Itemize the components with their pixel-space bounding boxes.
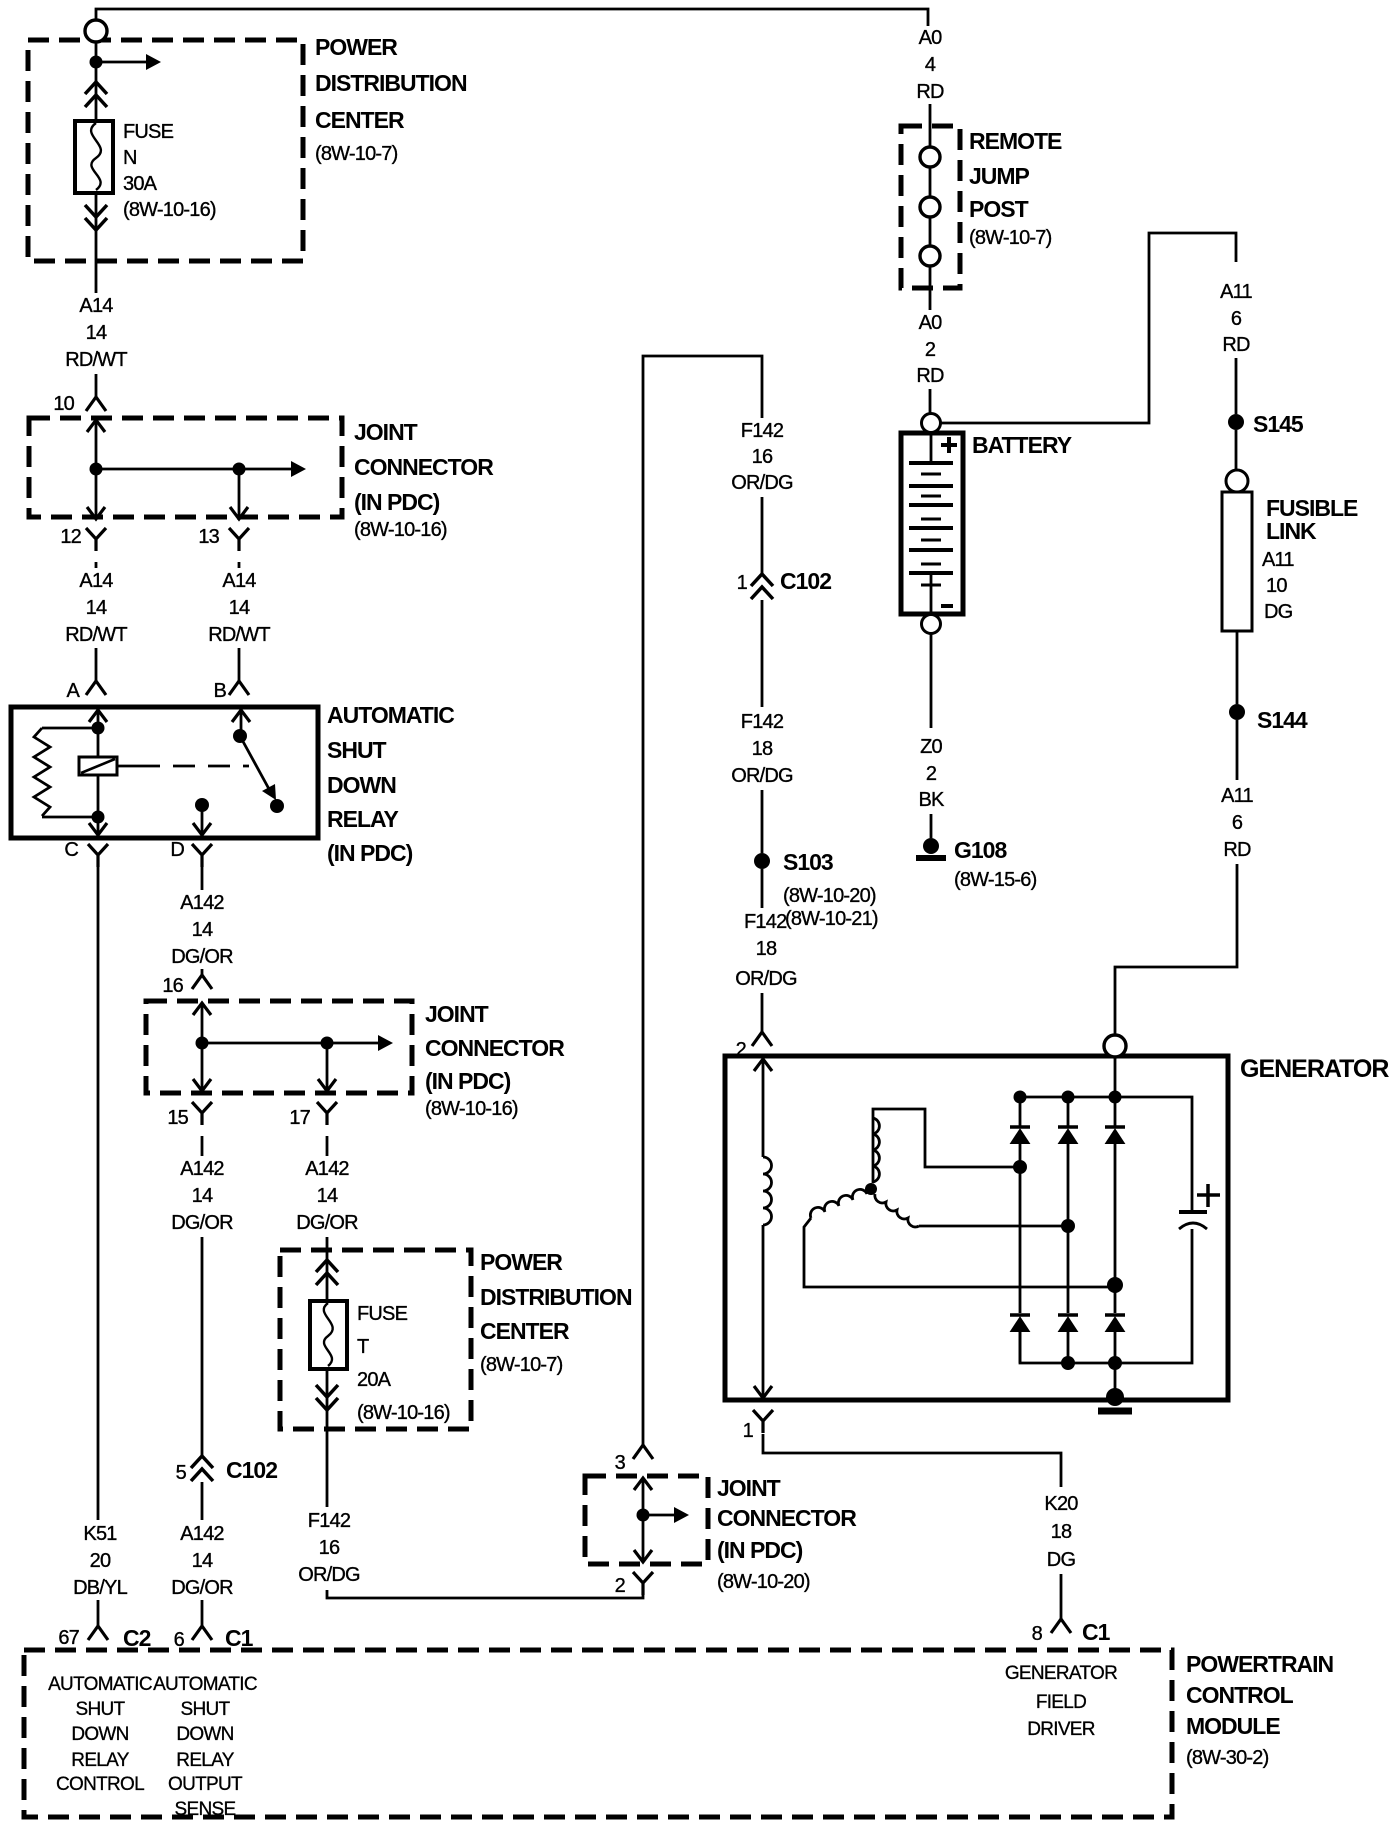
relay coil box: [79, 757, 117, 775]
stator tap dot 3: [1107, 1277, 1123, 1293]
label: wire K51 20 DB/YL: [62, 1520, 138, 1599]
wire: F142 16 OR/DG through C102 pin 1: [761, 497, 764, 707]
battery minus sign: [941, 604, 953, 608]
label: fuse N: [123, 121, 216, 221]
label: ground G108: [954, 837, 1037, 891]
pin C exit arrow: [89, 823, 107, 835]
generator rectifier top bus: [1020, 1097, 1192, 1212]
svg-text:20: 20: [90, 1550, 111, 1572]
connector C102 pin 1 chevrons: [751, 574, 773, 599]
remote jump post terminal 3: [920, 246, 940, 266]
svg-text:OR/DG: OR/DG: [735, 968, 797, 990]
generator capacitor plates: [1179, 1210, 1207, 1214]
pin 2 generator connector half: [752, 1032, 772, 1046]
wire: generator output circle into rectifier: [1114, 1057, 1117, 1097]
wire: A0 2 RD battery feed: [929, 389, 932, 413]
svg-text:12: 12: [60, 526, 81, 548]
fuse T body: [310, 1301, 347, 1369]
svg-text:F142: F142: [741, 711, 784, 733]
svg-text:(8W-10-7): (8W-10-7): [480, 1354, 563, 1376]
svg-text:BATTERY: BATTERY: [972, 432, 1072, 458]
label: fuse T: [357, 1303, 450, 1424]
svg-text:JOINT: JOINT: [717, 1475, 781, 1501]
heading: remote jump post: [969, 128, 1062, 249]
junction dot JC2 left: [196, 1037, 209, 1050]
svg-text:DG/OR: DG/OR: [171, 1577, 233, 1599]
svg-text:8: 8: [1032, 1623, 1043, 1645]
svg-text:S144: S144: [1257, 707, 1308, 733]
label: wire A142 14 DG/OR (pin 6): [166, 1520, 238, 1599]
pin 67 connector C2: [58, 1625, 150, 1651]
svg-text:(8W-10-7): (8W-10-7): [315, 143, 398, 165]
svg-text:SENSE: SENSE: [175, 1799, 236, 1820]
heading: powertrain control module: [1186, 1651, 1334, 1769]
heading: joint connector 2: [425, 1001, 565, 1120]
pin 16 connector half: [192, 975, 212, 989]
svg-text:16: 16: [319, 1537, 340, 1559]
svg-text:(8W-10-7): (8W-10-7): [969, 227, 1052, 249]
svg-text:15: 15: [167, 1107, 188, 1129]
relay contact D dot: [195, 798, 209, 812]
wire: relay pin B to switch pivot: [240, 710, 243, 730]
svg-text:K51: K51: [83, 1523, 117, 1545]
pin 16 mating arrow: [193, 1003, 211, 1015]
battery plus sign: [941, 437, 957, 453]
diode D4 bottom: [1010, 1315, 1030, 1332]
svg-text:A0: A0: [919, 27, 943, 49]
stator tap dot 1: [1013, 1160, 1027, 1174]
svg-text:JOINT: JOINT: [354, 419, 418, 445]
pin 10 mating arrow: [87, 420, 105, 432]
svg-text:A142: A142: [180, 1523, 224, 1545]
svg-text:FUSE: FUSE: [123, 121, 174, 143]
svg-text:(8W-10-16): (8W-10-16): [425, 1098, 518, 1120]
PCM function: automatic shut down relay control: [48, 1674, 152, 1795]
wire: generator field winding leg: [762, 1059, 765, 1398]
pin 12 exit arrow: [87, 507, 105, 519]
label: wire A14 14 RD/WT right: [203, 568, 275, 646]
svg-text:A0: A0: [919, 312, 943, 334]
generator stator winding 2: [810, 1189, 867, 1218]
svg-text:14: 14: [192, 1185, 213, 1207]
label: wire A0 2 RD: [900, 312, 960, 387]
svg-text:A11: A11: [1262, 549, 1294, 571]
connector chevrons: fuse N bottom: [85, 205, 107, 230]
connector chevrons: fuse N top: [85, 82, 107, 107]
remote jump post terminal 2: [920, 197, 940, 217]
svg-text:14: 14: [86, 597, 107, 619]
relay coil dashed link: [117, 765, 138, 768]
PDC internal feed arrow: [96, 61, 146, 64]
connector C102 pin 1: [737, 568, 832, 594]
wire: relay pin C to K51 label: [97, 866, 100, 1523]
svg-text:POST: POST: [969, 196, 1029, 222]
svg-text:30A: 30A: [123, 173, 158, 195]
svg-text:CENTER: CENTER: [315, 107, 405, 133]
splice S144 dot: [1229, 704, 1245, 720]
svg-text:A: A: [66, 680, 80, 702]
svg-text:C1: C1: [1082, 1619, 1111, 1645]
svg-text:MODULE: MODULE: [1186, 1713, 1280, 1739]
wire: pin 15 to A142 label: [201, 1136, 204, 1159]
svg-text:F142: F142: [308, 1510, 351, 1532]
rectifier top bus dot 2: [1062, 1091, 1075, 1104]
junction dot in PDC: [90, 56, 103, 69]
svg-text:AUTOMATIC: AUTOMATIC: [327, 702, 454, 728]
svg-text:C102: C102: [226, 1457, 277, 1483]
label: splice S103: [783, 849, 876, 907]
label: wire K20 18 DG: [1030, 1490, 1092, 1571]
svg-text:(IN PDC): (IN PDC): [717, 1537, 803, 1563]
svg-text:FIELD: FIELD: [1036, 1692, 1086, 1713]
svg-text:OR/DG: OR/DG: [731, 472, 793, 494]
rectifier bottom bus dot 3: [1108, 1356, 1122, 1370]
svg-text:S103: S103: [783, 849, 833, 875]
diode D2 top: [1058, 1127, 1078, 1144]
wire: A142 down to C102 pin 5: [201, 1237, 204, 1523]
wire: fusible link to S144: [1236, 631, 1239, 704]
wire: joint connector internal leg 12: [95, 420, 98, 519]
wire: joint connector 3 internal leg: [642, 1478, 645, 1562]
pin 2 JC3 exit arrow: [634, 1550, 652, 1562]
svg-text:(8W-10-20): (8W-10-20): [717, 1571, 810, 1593]
svg-text:18: 18: [1051, 1521, 1072, 1543]
wire: generator pin 1 to K20: [763, 1434, 1061, 1487]
pin 13 connector half: [229, 528, 249, 551]
generator rectifier diode column 1: [1019, 1097, 1022, 1363]
label: wire A11 6 RD upper: [1206, 280, 1266, 356]
svg-text:AUTOMATIC: AUTOMATIC: [153, 1674, 257, 1695]
svg-text:(IN PDC): (IN PDC): [327, 840, 413, 866]
svg-text:C102: C102: [780, 568, 831, 594]
label: wire A142 14 DG/OR (pin D): [166, 890, 238, 968]
svg-text:RELAY: RELAY: [71, 1750, 129, 1771]
joint connector box 3: [585, 1476, 708, 1564]
junction dot JC1 left: [90, 463, 103, 476]
svg-text:A142: A142: [180, 892, 224, 914]
generator stator winding 1: [873, 1109, 1020, 1183]
svg-text:DG: DG: [1264, 601, 1293, 623]
svg-text:T: T: [357, 1336, 369, 1358]
pin D exit arrow: [193, 823, 211, 835]
svg-text:A14: A14: [222, 570, 256, 592]
remote jump post box: [901, 126, 960, 288]
svg-text:14: 14: [317, 1185, 338, 1207]
svg-text:LINK: LINK: [1266, 518, 1317, 544]
pin 67 connector half: [88, 1626, 108, 1640]
svg-text:2: 2: [736, 1039, 747, 1061]
svg-text:GENERATOR: GENERATOR: [1240, 1055, 1389, 1083]
relay moving contact dot: [270, 799, 284, 813]
svg-text:DOWN: DOWN: [176, 1724, 233, 1745]
relay switch arm with arrowhead: [240, 736, 269, 789]
svg-text:16: 16: [162, 975, 183, 997]
wire: A11 6 RD into generator output circle: [1115, 864, 1237, 1034]
diode D6 bottom: [1105, 1315, 1125, 1332]
splice S145 dot: [1228, 414, 1244, 430]
svg-text:JUMP: JUMP: [969, 163, 1030, 189]
diode D5 bottom: [1058, 1315, 1078, 1332]
wire: A14 14 RD/WT to joint connector pin 10: [95, 374, 98, 397]
pin 3 mating arrow: [634, 1478, 652, 1490]
connector C102 pin 5: [176, 1457, 278, 1484]
svg-text:A142: A142: [180, 1158, 224, 1180]
generator field coil: [763, 1157, 772, 1225]
rectifier bottom bus dot 2: [1061, 1356, 1075, 1370]
generator rectifier bottom bus: [1020, 1229, 1192, 1363]
battery cell plates: [909, 463, 953, 573]
battery positive terminal circle: [922, 414, 941, 433]
svg-text:REMOTE: REMOTE: [969, 128, 1062, 154]
wire: battery negative Z0 to G108: [930, 634, 933, 838]
generator rectifier diode column 2: [1067, 1097, 1070, 1363]
wire: F142 net riser to joint connector pin 3: [643, 356, 762, 1445]
svg-text:CONTROL: CONTROL: [1186, 1682, 1294, 1708]
svg-text:17: 17: [289, 1107, 310, 1129]
svg-text:SHUT: SHUT: [327, 737, 387, 763]
relay coil bottom junction dot: [92, 811, 105, 824]
svg-text:(IN PDC): (IN PDC): [425, 1068, 511, 1094]
pin 15 connector half: [192, 1102, 212, 1125]
svg-text:18: 18: [752, 738, 773, 760]
wire: A0 riser through remote jump post to battery: [929, 104, 932, 310]
node: PDC B+ terminal circle: [85, 20, 107, 42]
wire: A142 to PCM pin 6: [201, 1600, 204, 1626]
svg-text:N: N: [123, 147, 137, 169]
label: wire A142 14 DG/OR (pin 15): [166, 1156, 238, 1234]
svg-text:A11: A11: [1221, 785, 1253, 807]
connector chevrons: fuse T top: [316, 1260, 338, 1285]
pin 8 connector C1: [1032, 1619, 1111, 1645]
pin 8 connector half: [1051, 1619, 1071, 1633]
svg-text:RD: RD: [1222, 334, 1250, 356]
joint connector 3 bus arrow: [643, 1514, 674, 1517]
power distribution center box (top): [28, 40, 303, 261]
heading: power distribution center: [315, 34, 467, 165]
svg-text:FUSE: FUSE: [357, 1303, 408, 1325]
svg-text:G108: G108: [954, 837, 1007, 863]
generator output terminal circle: [1104, 1035, 1126, 1057]
label: wire F142 16 OR/DG upper: [726, 418, 798, 494]
label: wire F142 18 OR/DG: [726, 709, 798, 787]
pin 3 connector half: [633, 1445, 653, 1459]
joint connector box 1: [29, 418, 342, 517]
pin A mating arrow: [89, 710, 107, 722]
connector C102 pin 5 chevrons: [191, 1456, 213, 1481]
relay switch pivot dot: [233, 729, 247, 743]
pin 10 connector half: [86, 397, 106, 411]
automatic shut down relay box: [11, 707, 318, 838]
fuse N body: [75, 121, 113, 193]
generator capacitor plus sign: [1197, 1184, 1220, 1207]
pin 1 generator connector half: [753, 1410, 773, 1433]
label: wire A0 4 RD: [900, 26, 960, 103]
svg-text:DB/YL: DB/YL: [73, 1577, 127, 1599]
svg-text:14: 14: [192, 1550, 213, 1572]
fuse N element: [91, 123, 101, 190]
PCM function: automatic shut down relay output sense: [153, 1674, 257, 1820]
wire: relay pin D to A142 label: [201, 866, 204, 893]
pin B mating arrow: [232, 710, 250, 722]
svg-text:AUTOMATIC: AUTOMATIC: [48, 1674, 152, 1695]
svg-text:DISTRIBUTION: DISTRIBUTION: [315, 70, 467, 96]
junction dot JC2 right: [321, 1037, 334, 1050]
svg-text:A11: A11: [1220, 281, 1252, 303]
wire: battery positive to A11 riser: [941, 233, 1236, 423]
pin 17 connector half: [317, 1102, 337, 1125]
junction dot JC1 right: [233, 463, 246, 476]
svg-text:RELAY: RELAY: [176, 1750, 234, 1771]
svg-text:14: 14: [229, 597, 250, 619]
svg-text:2: 2: [615, 1575, 626, 1597]
svg-text:A14: A14: [79, 570, 113, 592]
svg-text:K20: K20: [1044, 1493, 1078, 1515]
wire: relay pin A coil leg: [97, 710, 100, 835]
svg-text:CONTROL: CONTROL: [56, 1774, 144, 1795]
wire: rectifier ground leg: [1114, 1363, 1117, 1394]
svg-text:JOINT: JOINT: [425, 1001, 489, 1027]
rectifier top bus dot 3: [1109, 1091, 1122, 1104]
heading: power distribution center 2: [480, 1249, 632, 1376]
label: wire A14 14 RD/WT left: [60, 568, 132, 646]
ground G108 symbol: [923, 838, 939, 854]
rectifier top bus dot 1: [1014, 1091, 1027, 1104]
svg-text:2: 2: [925, 339, 936, 361]
diode D3 top: [1105, 1127, 1125, 1144]
svg-text:RELAY: RELAY: [327, 806, 398, 832]
wire: pin 12 to A14 label: [95, 562, 98, 571]
svg-text:CONNECTOR: CONNECTOR: [425, 1035, 565, 1061]
wire: A14 to relay pin B: [238, 648, 241, 681]
PCM function: generator field driver: [1005, 1663, 1117, 1740]
heading: joint connector 3: [717, 1475, 857, 1593]
junction dot JC3: [637, 1509, 650, 1522]
svg-text:(8W-10-20): (8W-10-20): [783, 885, 876, 907]
svg-text:(8W-15-6): (8W-15-6): [954, 869, 1037, 891]
wire: joint connector bus with arrow: [96, 468, 291, 471]
label: wire A14 14 RD/WT top: [60, 293, 132, 371]
wire: joint connector 2 internal leg 15: [201, 1003, 204, 1091]
relay coil top junction dot: [92, 722, 105, 735]
svg-text:(8W-10-16): (8W-10-16): [123, 199, 216, 221]
svg-text:GENERATOR: GENERATOR: [1005, 1663, 1117, 1684]
svg-text:A142: A142: [305, 1158, 349, 1180]
wire: joint connector internal leg 13: [238, 469, 241, 519]
generator box: [725, 1056, 1228, 1400]
svg-text:(IN PDC): (IN PDC): [354, 489, 440, 515]
svg-text:F142: F142: [741, 420, 784, 442]
svg-text:(8W-30-2): (8W-30-2): [1186, 1747, 1269, 1769]
fusible link body: [1222, 492, 1252, 631]
svg-text:RD/WT: RD/WT: [65, 624, 127, 646]
svg-text:(8W-10-16): (8W-10-16): [354, 519, 447, 541]
battery box: [901, 433, 963, 614]
svg-text:RD: RD: [1223, 839, 1251, 861]
svg-text:1: 1: [737, 572, 748, 594]
wire: F142 18 OR/DG to S103: [761, 790, 764, 908]
pin B connector half: [229, 681, 249, 695]
svg-text:1: 1: [743, 1420, 754, 1442]
svg-text:SHUT: SHUT: [181, 1699, 231, 1720]
wire: K20 to PCM pin 8: [1060, 1574, 1063, 1619]
resistor in relay: [34, 728, 50, 816]
wire: A142 to joint connector 2 pin 16: [201, 969, 204, 975]
pin 17 exit arrow: [318, 1079, 336, 1091]
svg-text:DISTRIBUTION: DISTRIBUTION: [480, 1284, 632, 1310]
wire: top feed from PDC to A0 riser: [96, 9, 928, 26]
svg-text:OR/DG: OR/DG: [298, 1564, 360, 1586]
wire: pin 13 to A14 label: [238, 562, 241, 571]
svg-text:67: 67: [58, 1627, 79, 1649]
svg-text:10: 10: [53, 393, 74, 415]
wire: relay contact D to pin D: [201, 811, 204, 835]
svg-text:B: B: [213, 680, 226, 702]
svg-text:DG/OR: DG/OR: [171, 946, 233, 968]
pin 6 connector half: [192, 1626, 212, 1640]
wire: pin 17 to A142 label: [326, 1136, 329, 1159]
label: wire A142 14 DG/OR (pin 17): [291, 1156, 363, 1234]
heading: joint connector 1: [354, 419, 494, 541]
fuse T element: [324, 1303, 333, 1366]
stator tap dot 2: [1061, 1219, 1075, 1233]
svg-text:2: 2: [926, 763, 937, 785]
svg-text:DRIVER: DRIVER: [1027, 1719, 1095, 1740]
pin 13 exit arrow: [230, 507, 248, 519]
splice S103 dot: [754, 853, 770, 869]
wire: relay resistor branch: [42, 728, 98, 817]
svg-text:16: 16: [752, 446, 773, 468]
pin 15 exit arrow: [193, 1079, 211, 1091]
svg-text:RD/WT: RD/WT: [208, 624, 270, 646]
pin 2 JC3 connector half: [633, 1572, 653, 1595]
battery negative terminal circle: [922, 615, 941, 634]
svg-text:6: 6: [1232, 812, 1243, 834]
wire: A142 into PDC fuse T: [326, 1237, 329, 1510]
svg-text:BK: BK: [918, 789, 945, 811]
svg-text:(8W-10-21): (8W-10-21): [785, 908, 878, 930]
svg-text:S145: S145: [1253, 411, 1304, 437]
svg-text:D: D: [170, 839, 184, 861]
joint connector box 2: [146, 1001, 412, 1093]
label: wire F142 16 OR/DG (fuse T out): [293, 1507, 365, 1586]
fusible link terminal circle: [1226, 470, 1248, 492]
wire: joint connector 2 internal leg 17: [326, 1043, 329, 1091]
svg-text:C2: C2: [123, 1625, 151, 1651]
svg-text:4: 4: [925, 54, 936, 76]
svg-text:DOWN: DOWN: [71, 1724, 128, 1745]
svg-text:6: 6: [174, 1629, 185, 1651]
heading: automatic shut down relay: [327, 702, 454, 866]
svg-text:OR/DG: OR/DG: [731, 765, 793, 787]
svg-text:DG: DG: [1047, 1549, 1076, 1571]
svg-text:13: 13: [198, 526, 219, 548]
pin 2 generator mating arrow: [754, 1059, 772, 1071]
wire: S145 to fusible link: [1235, 430, 1238, 470]
svg-text:DOWN: DOWN: [327, 772, 396, 798]
svg-text:C1: C1: [225, 1625, 254, 1651]
svg-text:14: 14: [192, 919, 213, 941]
wire: PDC fuse N column: [95, 42, 98, 296]
pin A connector half: [86, 681, 106, 695]
wire: S144 to A11 6 RD lower: [1236, 720, 1239, 780]
svg-text:3: 3: [615, 1452, 626, 1474]
svg-text:18: 18: [756, 938, 777, 960]
svg-text:CONNECTOR: CONNECTOR: [354, 454, 494, 480]
power distribution center box (fuse T): [280, 1250, 471, 1429]
svg-text:20A: 20A: [357, 1369, 392, 1391]
svg-text:POWER: POWER: [315, 34, 398, 60]
svg-text:RD/WT: RD/WT: [65, 349, 127, 371]
